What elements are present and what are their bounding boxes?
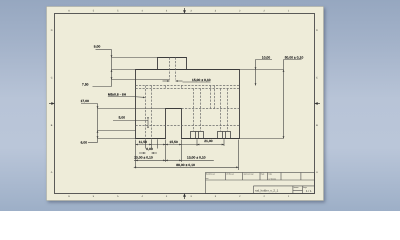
drawing sheet (paper) [47, 7, 324, 201]
title block grid [206, 173, 315, 194]
centering mark bottom [184, 194, 186, 199]
svg-text:M5x0.8 - 6H: M5x0.8 - 6H [108, 92, 126, 96]
svg-text:Dessiné par: Dessiné par [206, 172, 215, 175]
dimension 17,00 (notch height chain) [81, 104, 166, 143]
svg-text:17,00: 17,00 [81, 99, 90, 103]
hidden stubs at notch corners [166, 86, 182, 89]
svg-text:D: D [51, 29, 53, 32]
svg-text:88,00 ± 0,10: 88,00 ± 0,10 [176, 163, 195, 167]
counterbore A profile [191, 132, 204, 139]
border frame [55, 14, 315, 194]
dimension 5,00 (hole depth) [113, 120, 148, 126]
zone numbers top edge [68, 9, 290, 12]
svg-text:50,00 ± 0,10: 50,00 ± 0,10 [285, 55, 304, 59]
centering mark top [184, 8, 186, 13]
hidden hole B [221, 89, 228, 132]
hidden line: slot edge right of notch [182, 108, 240, 110]
hidden hole: middle pair [211, 86, 215, 109]
svg-text:13,00 ± 0,10: 13,00 ± 0,10 [187, 155, 206, 159]
hidden hole A [194, 89, 201, 132]
part body outline with bottom notch [136, 70, 240, 139]
svg-text:23,00 ± 0,10: 23,00 ± 0,10 [134, 155, 153, 159]
hidden hole: tapped hole in tab [170, 58, 176, 80]
zone numbers bottom edge [68, 195, 290, 198]
dimension 88,00 (overall width) [134, 166, 239, 168]
dimension value labels [81, 45, 304, 167]
dimension row 11,50 / 15,50 / 21,00 [136, 144, 225, 146]
svg-text:11,50: 11,50 [139, 140, 147, 144]
svg-text:son: son [206, 178, 209, 180]
dimension 15,00 (tab hole) [163, 81, 211, 82]
svg-text:Approuvé par: Approuvé par [244, 172, 255, 175]
centering mark left [49, 103, 54, 105]
hidden line: cross hole upper edge [136, 85, 240, 87]
hidden line: lower slot edge [136, 125, 240, 127]
dimension 7,50 (thread depth) [93, 80, 170, 87]
svg-text:10,00: 10,00 [262, 55, 271, 59]
hidden line: cross hole lower edge [136, 88, 240, 90]
svg-text:Masse: Masse [294, 186, 299, 189]
centering mark right [315, 103, 320, 105]
svg-text:21,00: 21,00 [204, 139, 213, 143]
svg-text:Vérifié par: Vérifié par [226, 172, 234, 175]
dimension 50,00 (body height) [240, 60, 302, 139]
dimension 6,00 (left lower chain) [88, 139, 136, 143]
dimension 10,00 (top to cross hole) [256, 60, 273, 86]
title block labels [206, 172, 307, 189]
svg-text:C: C [51, 77, 53, 80]
extension lines below part [136, 139, 239, 170]
top boss tab [158, 58, 187, 70]
svg-text:7,50: 7,50 [82, 82, 89, 86]
title block part name and sheet number [255, 188, 312, 193]
hidden hole: left M5 hole [146, 86, 152, 139]
svg-text:17.8.2014: 17.8.2014 [269, 177, 277, 180]
svg-text:6,00: 6,00 [146, 147, 153, 151]
leader M5x0.8 - 6H [108, 96, 144, 99]
svg-text:D: D [316, 29, 318, 32]
counterbore B profile [218, 132, 231, 139]
zone letters left edge [51, 29, 53, 174]
svg-text:rod_holder_v_2_1: rod_holder_v_2_1 [255, 188, 279, 192]
svg-text:15,00 ± 0,10: 15,00 ± 0,10 [192, 78, 211, 82]
dimension 9,00 (tab height) [96, 50, 158, 87]
svg-text:C: C [316, 77, 318, 80]
dimension 6,00 (hole width) [139, 152, 157, 154]
svg-text:6,00: 6,00 [81, 141, 88, 145]
svg-text:5,00: 5,00 [119, 116, 126, 120]
svg-text:Date: Date [269, 172, 273, 175]
zone letters right edge [316, 29, 318, 174]
svg-text:1 / 1: 1 / 1 [306, 189, 312, 193]
svg-text:9,00: 9,00 [94, 45, 101, 49]
svg-text:15,50: 15,50 [170, 140, 179, 144]
svg-text:Date: Date [261, 172, 265, 175]
dimension row 23,00 / 13,00 [134, 159, 214, 161]
